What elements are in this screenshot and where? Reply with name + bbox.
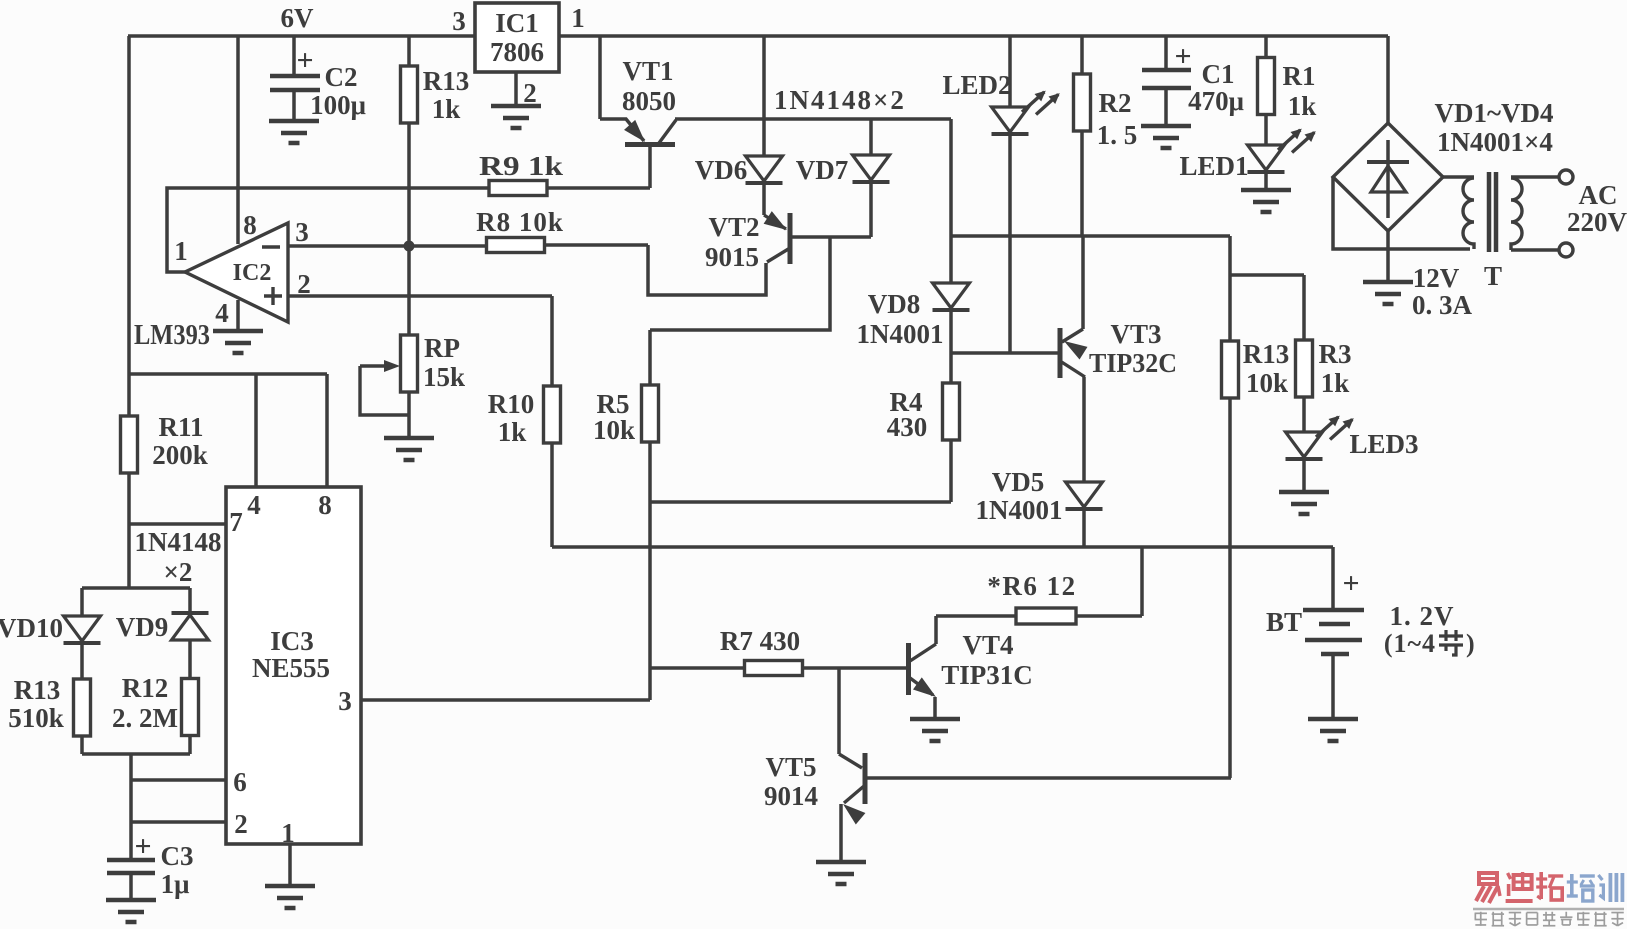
svg-text:1. 5: 1. 5: [1097, 120, 1138, 150]
svg-text:2. 2M: 2. 2M: [112, 703, 178, 733]
svg-text:1k: 1k: [1288, 91, 1317, 121]
svg-text:C3: C3: [161, 841, 194, 871]
svg-text:470μ: 470μ: [1188, 86, 1244, 116]
svg-text:VD6: VD6: [695, 155, 748, 185]
svg-text:C2: C2: [325, 62, 358, 92]
svg-text:1k: 1k: [432, 94, 461, 124]
svg-text:TIP31C: TIP31C: [941, 660, 1033, 690]
svg-text:VT2: VT2: [708, 212, 759, 242]
svg-text:VT3: VT3: [1110, 319, 1161, 349]
svg-text:VD1~VD4: VD1~VD4: [1434, 98, 1553, 128]
svg-text:9015: 9015: [705, 242, 759, 272]
svg-text:220V: 220V: [1567, 207, 1627, 237]
svg-text:9014: 9014: [764, 781, 818, 811]
svg-text:3: 3: [338, 686, 352, 716]
svg-text:+: +: [134, 830, 151, 863]
svg-text:3: 3: [295, 217, 309, 247]
svg-text:IC1: IC1: [495, 8, 539, 38]
svg-text:*R6 12: *R6 12: [987, 571, 1076, 601]
svg-text:8: 8: [318, 490, 332, 520]
svg-text:1k: 1k: [1321, 368, 1350, 398]
svg-text:LM393: LM393: [134, 320, 210, 351]
svg-text:1: 1: [174, 236, 188, 266]
svg-text:R10: R10: [488, 389, 535, 419]
svg-text:6V: 6V: [281, 3, 315, 33]
svg-text:2: 2: [234, 809, 248, 839]
svg-text:VD8: VD8: [868, 289, 921, 319]
svg-text:VD5: VD5: [992, 467, 1045, 497]
svg-text:R1: R1: [1283, 61, 1316, 91]
svg-text:7: 7: [229, 507, 243, 537]
svg-text:15k: 15k: [423, 362, 465, 392]
svg-text:7806: 7806: [490, 37, 544, 67]
svg-text:LED3: LED3: [1349, 429, 1418, 459]
svg-text:AC: AC: [1579, 180, 1618, 210]
svg-text:R13: R13: [14, 675, 61, 705]
svg-text:TIP32C: TIP32C: [1089, 348, 1177, 378]
svg-text:(1~4: (1~4: [1384, 629, 1436, 658]
svg-text:R11: R11: [158, 412, 203, 442]
svg-text:6: 6: [233, 767, 247, 797]
svg-text:IC3: IC3: [270, 626, 314, 656]
svg-text:R9 1k: R9 1k: [479, 151, 563, 181]
svg-text:NE555: NE555: [252, 653, 330, 683]
svg-text:R13: R13: [423, 66, 470, 96]
svg-text:): ): [1466, 629, 1475, 658]
svg-text:LED1: LED1: [1179, 151, 1248, 181]
svg-text:+: +: [1174, 40, 1191, 73]
svg-text:VD10: VD10: [0, 613, 63, 643]
svg-text:T: T: [1484, 261, 1502, 291]
svg-text:10k: 10k: [1246, 368, 1288, 398]
svg-text:12V: 12V: [1413, 263, 1460, 293]
svg-text:VT5: VT5: [765, 752, 816, 782]
svg-text:IC2: IC2: [233, 260, 272, 286]
svg-text:VD9: VD9: [116, 612, 169, 642]
svg-text:R3: R3: [1319, 339, 1352, 369]
svg-text:VT1: VT1: [622, 56, 673, 86]
svg-text:BT: BT: [1266, 607, 1302, 637]
svg-text:0. 3A: 0. 3A: [1412, 290, 1473, 320]
svg-text:LED2: LED2: [942, 70, 1011, 100]
svg-text:8050: 8050: [622, 86, 676, 116]
svg-text:R2: R2: [1099, 88, 1132, 118]
svg-text:100μ: 100μ: [310, 90, 366, 120]
svg-text:200k: 200k: [152, 440, 208, 470]
svg-text:R12: R12: [122, 673, 169, 703]
svg-text:C1: C1: [1202, 59, 1235, 89]
svg-text:R8 10k: R8 10k: [476, 207, 564, 237]
svg-text:×2: ×2: [164, 557, 193, 587]
svg-text:RP: RP: [424, 333, 460, 363]
svg-text:1: 1: [571, 3, 585, 33]
svg-text:4: 4: [215, 298, 229, 328]
svg-text:R13: R13: [1243, 339, 1290, 369]
svg-text:2: 2: [523, 78, 537, 108]
svg-text:1N4001: 1N4001: [857, 319, 944, 349]
svg-text:1N4001×4: 1N4001×4: [1437, 127, 1553, 157]
svg-text:1N4148×2: 1N4148×2: [774, 85, 906, 115]
svg-text:1. 2V: 1. 2V: [1390, 601, 1455, 631]
svg-text:+: +: [296, 44, 313, 77]
svg-text:3: 3: [452, 6, 466, 36]
svg-text:R7 430: R7 430: [720, 626, 800, 656]
svg-text:10k: 10k: [593, 415, 635, 445]
svg-text:1: 1: [281, 818, 295, 848]
svg-text:510k: 510k: [8, 703, 64, 733]
svg-text:430: 430: [887, 412, 928, 442]
svg-text:VD7: VD7: [796, 155, 849, 185]
svg-text:+: +: [1342, 567, 1359, 600]
svg-text:VT4: VT4: [962, 630, 1013, 660]
svg-text:1N4001: 1N4001: [976, 495, 1063, 525]
svg-text:4: 4: [247, 490, 261, 520]
svg-text:8: 8: [243, 210, 257, 240]
svg-text:1N4148: 1N4148: [135, 527, 222, 557]
svg-text:1μ: 1μ: [161, 869, 190, 899]
svg-text:1k: 1k: [498, 417, 527, 447]
